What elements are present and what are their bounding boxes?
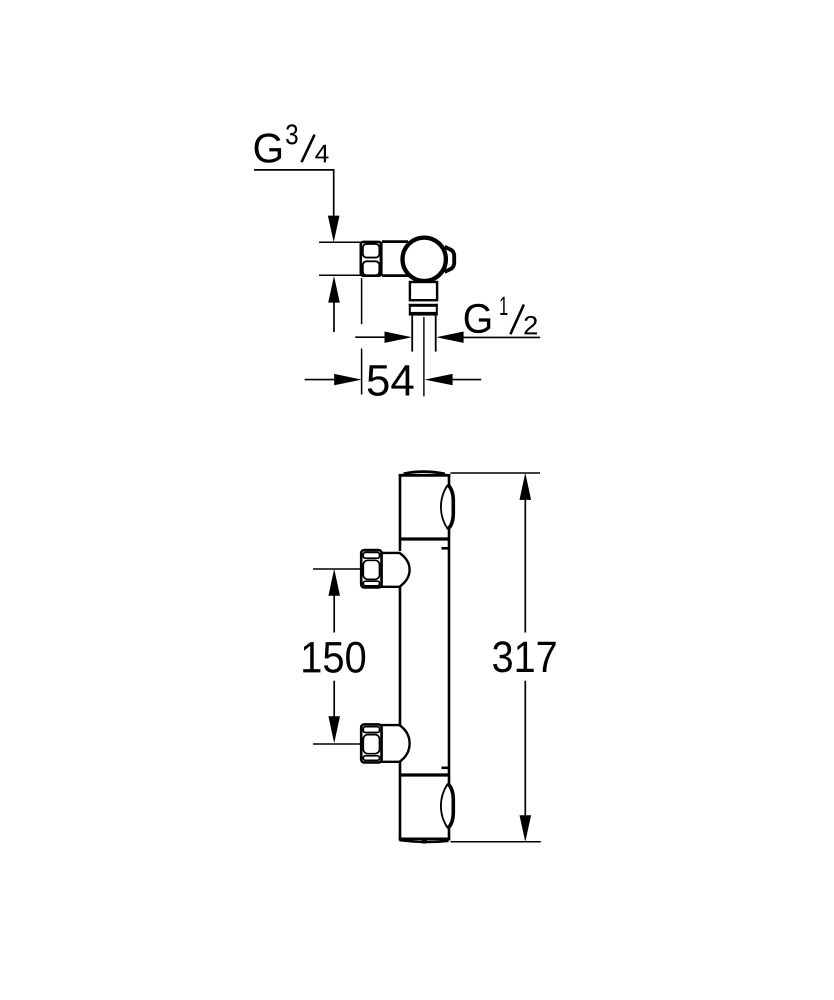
thermostat head circle [403,238,446,281]
G 1/2 dimension line left with arrow [355,332,412,343]
top control knob (lens) [441,485,454,529]
dimension 54 left arrow [305,374,362,385]
top notch tick [442,547,450,550]
dimension 317 extension line top [451,472,541,474]
pipe (shower hose outlet) [412,316,436,352]
dimension 150 extension line top [313,568,361,570]
dimension 317 arrow down [520,681,532,842]
dimension 54 right arrow [425,374,482,385]
label 317 [493,641,556,672]
centerline of pipe [423,317,425,396]
dimension 317 extension line bottom [451,841,541,843]
bottom cap nub [421,840,428,844]
lower boss [382,725,410,762]
bottom control knob (lens) [441,784,454,829]
top joint line [399,537,450,540]
arrow up to lower extension line [328,276,340,303]
upper hex nut [361,550,381,587]
lower hex nut [361,724,381,762]
hex nut (union nut, side view) [361,242,382,276]
top cap lever arc [404,472,446,474]
extension line lower (pipe bottom) [319,274,361,276]
bar bottom edge [399,838,451,841]
ear tab outline [445,247,455,272]
label G 1/2 [465,297,537,335]
bar body left edge [399,474,402,840]
hose nut band 1 [409,304,438,307]
bottom notch tick [442,766,450,769]
label 54 [368,365,414,396]
dimension 150 arrow down [328,681,340,744]
extension line 54 left (from nut) [361,278,363,395]
label G 3/4 [255,124,329,163]
ear tab on right of circle (white relief) [445,247,453,272]
bar top edge [399,474,451,477]
hose nut band 2 [409,312,438,316]
leader arrowhead down [328,216,340,243]
bottom joint line [399,773,450,776]
valve body block [381,242,412,276]
dimension 150 extension line bottom [313,743,361,745]
upper boss [382,553,410,587]
dimension 150 arrow up [328,569,340,633]
G 1/2 dimension line right with arrow [436,332,540,343]
extension line upper (pipe top) [319,241,361,243]
label 150 [303,642,365,673]
dimension 317 arrow up [520,473,532,633]
hose nut groove [410,304,437,312]
leader line G 3/4 [254,170,334,218]
bottom cap arc [400,840,449,842]
neck below circle [410,282,437,300]
bar body right edge [448,474,451,840]
